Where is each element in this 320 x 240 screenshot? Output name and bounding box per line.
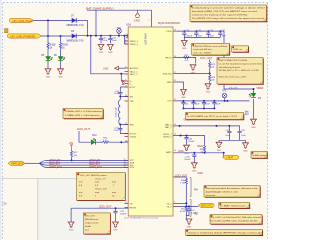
wire RA to RB [185, 190, 187, 206]
svg-text:D-: D- [130, 83, 133, 85]
note box: ILIM connected to high [217, 58, 263, 85]
net labels bus right set [89, 160, 102, 169]
svg-text:VBUS_2: VBUS_2 [130, 44, 139, 46]
capacitor C17 [99, 38, 103, 39]
wire ILIM divider vertical [209, 60, 211, 84]
svg-text:MBRD835L-T4G: MBRD835L-T4G [67, 25, 84, 27]
svg-text:Det: Det [245, 113, 249, 116]
svg-text:1.5k 4.7k: 1.5k 4.7k [229, 87, 239, 89]
svg-text:LDO_OUT: LDO_OUT [85, 215, 96, 217]
svg-text:14: 14 [174, 124, 176, 126]
wire to +7BAT capsule [223, 153, 224, 158]
wire VAC branch down to D+ pin [121, 74, 124, 81]
no-connect X on D- pin [122, 83, 124, 85]
svg-text:22: 22 [174, 99, 176, 101]
wire LED D6 to ground [60, 61, 62, 69]
svg-text:47uF: 47uF [114, 130, 119, 132]
junction dots PWD row [183, 30, 221, 32]
svg-text:LDO_OUT: LDO_OUT [77, 127, 91, 131]
capacitor C35 [182, 101, 184, 109]
port +5V_CAN_Power [9, 18, 33, 23]
inductor L34 [119, 97, 121, 125]
svg-text:U2 alt: PW PACKAGE / SOT, top: U2 alt: PW PACKAGE / SOT, top view only [124, 217, 159, 220]
capacitor C19 [228, 126, 230, 131]
svg-text:GND: GND [198, 172, 204, 175]
wire LDO_OUT to RA [177, 177, 186, 178]
svg-text:Bat: Bat [245, 110, 249, 113]
svg-text:LDO_OUT: LDO_OUT [99, 204, 112, 208]
capacitor C25 [195, 31, 197, 37]
svg-text:1: 1 [125, 39, 126, 41]
wire caps bottom rail [219, 140, 246, 142]
resistor RB R47 [185, 206, 187, 212]
capacitor C34 [119, 125, 121, 129]
resistor R27 PROG [184, 56, 190, 58]
svg-text:VDDA: VDDA [130, 135, 137, 138]
svg-text:be 5.24k and RB value should b: be 5.24k and RB value should be 30.31k [211, 220, 259, 222]
svg-text:100nF: 100nF [188, 141, 195, 143]
ground below RB [186, 219, 193, 229]
svg-text:SYN: SYN [130, 167, 135, 169]
wire PWR_SCL [46, 164, 128, 166]
svg-text:count and SW freq: count and SW freq [193, 48, 212, 51]
svg-text:BTST2: BTST2 [130, 133, 138, 135]
svg-text:C24: C24 [186, 30, 189, 32]
wire LED D9 stub [253, 89, 255, 95]
svg-text:10uF: 10uF [205, 103, 210, 105]
wire vertical link x48 [47, 20, 49, 43]
svg-text:30mA: 30mA [85, 225, 91, 228]
svg-text:Vmax = 12V: Vmax = 12V [95, 189, 108, 191]
svg-text:BAT_2: BAT_2 [165, 126, 172, 129]
ground below C13 [183, 145, 190, 155]
svg-text:ACDRV1: ACDRV1 [130, 67, 140, 70]
ground below D6 [57, 69, 64, 79]
wire C43 stub [115, 208, 117, 211]
wire SW pin to inductor top [120, 96, 128, 98]
svg-text:To BAT thermistor: To BAT thermistor [220, 205, 246, 208]
wire uPWR_INT [46, 159, 128, 161]
wire LED branch B top [60, 36, 62, 43]
bus fan-out [39, 160, 47, 167]
svg-text:C25: C25 [198, 30, 201, 32]
ground below C43 [112, 222, 119, 232]
svg-text:11: 11 [125, 202, 127, 204]
wire LDO_OUT down to LED row [79, 131, 91, 142]
power symbol GND up near IC top [134, 11, 140, 23]
IC right pin names [163, 31, 173, 208]
IC right pin stubs [173, 31, 177, 206]
svg-text:output current: output current [85, 221, 99, 224]
svg-text:+5V_CAN_POWER2: +5V_CAN_POWER2 [10, 34, 36, 38]
port PWR_BUS [8, 161, 25, 165]
svg-text:10uF: 10uF [112, 40, 118, 42]
svg-text:VREF: VREF [256, 86, 263, 90]
svg-text:1.5MHz SW = 1uH inductor: 1.5MHz SW = 1uH inductor [65, 114, 100, 117]
note box: inductor choice [63, 109, 103, 119]
ground below C18 [107, 44, 114, 54]
wire VBUS branch from supply bus to VAC pin [91, 36, 125, 74]
svg-text:connects the battery to the sy: connects the battery to the system (VSYS… [192, 13, 249, 16]
svg-text:PROG: PROG [165, 57, 172, 59]
wire main supply bus [77, 36, 125, 44]
svg-text:10uF: 10uF [241, 135, 246, 137]
capacitor C36 [193, 101, 195, 109]
wire PWD bottom rail [184, 37, 220, 39]
wire BATP pin [177, 152, 224, 154]
resistor R109 [59, 43, 61, 49]
page dashed border left [2, 3, 4, 240]
svg-text:(REG30) max: (REG30) max [85, 219, 99, 221]
ground below C17 [98, 44, 105, 54]
svg-text:U2A: U2A [126, 23, 131, 27]
svg-text:REGN: REGN [130, 207, 137, 209]
svg-text:4: 4 [125, 66, 126, 68]
note box: recommended thermistor [204, 186, 260, 198]
ground below caps rail left [216, 142, 223, 152]
capacitor C20 [238, 131, 242, 132]
resistor R26 [209, 75, 211, 81]
wire inductor bottom to SRC pin [120, 124, 128, 126]
wire PROG pin [177, 58, 196, 64]
svg-text:nom: nom [95, 182, 99, 184]
svg-text:23: 23 [174, 80, 176, 82]
ground below PROG [190, 65, 197, 75]
bracket RB [190, 200, 191, 217]
wire BAT pin long row [177, 126, 240, 131]
IC pin numbers [125, 29, 176, 203]
capacitor C43 [113, 212, 117, 213]
resistor R36 [203, 146, 205, 152]
svg-text:uPWR_SYN: uPWR_SYN [49, 167, 62, 169]
ground below D9 [250, 119, 257, 129]
ground below PWD cap bank [181, 41, 188, 51]
ground below D5 [45, 69, 52, 79]
svg-text:BATP: BATP [166, 151, 172, 154]
note box: To BAT power [251, 152, 267, 159]
svg-text:3: 3 [174, 202, 175, 204]
svg-text:18: 18 [124, 166, 126, 168]
ground flag left at ACDRV1 [103, 66, 125, 70]
wire PWR_SDA [46, 162, 128, 164]
svg-text:10uF: 10uF [216, 103, 221, 105]
svg-text:BAT_NTC: BAT_NTC [201, 205, 212, 208]
svg-text:ILIM_HI2: ILIM_HI2 [163, 73, 173, 75]
svg-text:GND: GND [167, 82, 172, 84]
capacitor C38 [213, 101, 215, 109]
junction dots CTS rails [182, 100, 228, 110]
note box: NTC RA RB [210, 215, 262, 225]
svg-text:ILIM CONNECTED TO HIGH: ILIM CONNECTED TO HIGH [219, 60, 248, 62]
wire GND pin [177, 82, 184, 89]
svg-text:MBRD835L-T4G: MBRD835L-T4G [67, 41, 84, 43]
svg-text:CAN4117V: CAN4117V [144, 33, 147, 45]
wire TP4 stub [118, 33, 120, 36]
svg-text:+5V_CAN_Power: +5V_CAN_Power [12, 19, 33, 23]
svg-text:CE: CE [130, 203, 134, 205]
svg-text:The REGN LDO stays off to mini: The REGN LDO stays off to minimize the q… [192, 17, 265, 20]
svg-text:TP1: TP1 [222, 91, 227, 93]
svg-text:BACP: BACP [197, 145, 204, 148]
svg-text:RA: RA [194, 188, 198, 192]
no-connect X on D+ pin [122, 80, 124, 82]
resistor R16 pull-up [71, 150, 73, 151]
svg-text:to set the maximum input curre: to set the maximum input current limit [219, 62, 262, 65]
svg-text:TS_2: TS_2 [166, 206, 172, 208]
wire D7 cathode to node x87 [77, 19, 88, 21]
svg-text:PWD: PWD [166, 31, 172, 33]
svg-text:with following formula:: with following formula: [219, 66, 241, 69]
svg-text:C26: C26 [210, 30, 213, 32]
wire LED D9 down [253, 99, 255, 119]
svg-text:RB: RB [194, 211, 198, 215]
svg-text:4.7k = 2s, 750kHz: 4.7k = 2s, 750kHz [193, 53, 211, 55]
port BAT_NTC [198, 203, 214, 207]
svg-text:BTM. res: BTM. res [233, 48, 243, 51]
svg-text:LDO_OUT: LDO_OUT [200, 56, 213, 60]
wire BAT CHAR SUPPLY vertical into IC top pin [151, 10, 153, 27]
wire bend down left [70, 208, 72, 222]
bus wire from port [25, 162, 39, 164]
svg-text:47uF: 47uF [114, 93, 119, 95]
wire R40 to IC pin 18 [109, 141, 128, 143]
capacitor C18 [108, 38, 112, 39]
svg-text:100nF: 100nF [184, 159, 191, 161]
svg-text:100nF: 100nF [120, 214, 127, 216]
capacitor C32 [118, 93, 122, 94]
svg-text:28: 28 [174, 29, 176, 31]
svg-text:(bq)27540(q)db: 10kOhm 2: clis: (bq)27540(q)db: 10kOhm 2: clish [206, 191, 239, 193]
wire TS_1 pin [177, 202, 186, 204]
svg-text:+7BAT: +7BAT [226, 156, 234, 159]
svg-text:10uF: 10uF [195, 103, 200, 105]
svg-text:TRC: TRC [130, 101, 135, 103]
svg-text:D12: D12 [92, 135, 97, 137]
wire port1 to diode D7 anode [34, 19, 72, 21]
svg-text:SDRV_1: SDRV_1 [163, 134, 172, 136]
ground left CE row [68, 222, 75, 232]
capacitor C38 [193, 153, 195, 155]
resistor R108 [47, 43, 49, 49]
svg-text:+5V: +5V [69, 142, 74, 145]
svg-text:BAT_1: BAT_1 [165, 123, 172, 126]
port +5V_CAN_POWER2 [7, 34, 41, 39]
op-amp U2 charger IC body [128, 27, 173, 216]
wire pin VBUS_2 [125, 43, 129, 45]
note box: LDO_OUT max output current [83, 213, 110, 234]
svg-text:GND: GND [103, 67, 109, 70]
svg-text:PROG PIN to set cell bat: PROG PIN to set cell bat [193, 45, 228, 48]
svg-text:uPWR_SYN: uPWR_SYN [89, 167, 102, 169]
bus pin numbers [124, 159, 126, 168]
svg-text:13: 13 [174, 134, 176, 136]
wire CTS bottom rail [183, 107, 214, 109]
note box: BTM res [232, 46, 249, 53]
svg-text:0.1uF: 0.1uF [102, 40, 108, 42]
svg-text:If only battery is present and: If only battery is present and the volta… [192, 7, 265, 10]
svg-text:Is VSYSMIN (an NTC so ur bat): Is VSYSMIN (an NTC so ur bat) = 3.7V [187, 115, 238, 118]
junction dots top-left [47, 19, 126, 37]
ground GND pin [180, 90, 187, 100]
capacitor C24 [183, 31, 185, 37]
wire BAT CHAR SUPPLY horizontal [87, 9, 152, 11]
IC left pin names [130, 41, 140, 210]
svg-text:VILIM_HI2 = 2V + 666 mV = ILIM: VILIM_HI2 = 2V + 666 mV = ILIM [219, 70, 259, 72]
page dashed border right [267, 3, 269, 240]
svg-text:threshold (VBAT_UVLOZ), the BA: threshold (VBAT_UVLOZ), the BATFET turns… [192, 10, 258, 13]
wire R108 to LED D5 [47, 49, 49, 57]
page dashed border top [3, 2, 268, 4]
ground below ILIM divider [205, 84, 212, 94]
capacitor C26 [207, 31, 209, 37]
svg-text:To BAT power: To BAT power [252, 154, 267, 157]
wire pin VBUS_1 [125, 40, 129, 42]
junction CE row [115, 207, 117, 209]
wire BTST to cap C32 [120, 87, 124, 92]
svg-text:VAC1_2: VAC1_2 [130, 73, 139, 76]
wire R109 to LED D6 [60, 49, 62, 57]
svg-text:PWR_BUS: PWR_BUS [11, 162, 24, 165]
capacitor C47 [188, 206, 190, 208]
svg-text:10uF: 10uF [225, 135, 230, 137]
note box: VSYSMIN [186, 113, 244, 120]
bracket RA [190, 178, 191, 197]
grey window rectangle bottom-left [38, 178, 108, 240]
svg-text:C27: C27 [222, 30, 225, 32]
svg-text:2: 2 [125, 42, 126, 44]
svg-text:LDO_OUT: LDO_OUT [175, 173, 188, 177]
svg-text:CTS: CTS [167, 101, 172, 103]
svg-text:7: 7 [125, 79, 126, 81]
wire stem to ground [183, 38, 185, 41]
wire SDRV pin row [177, 136, 205, 147]
note box: battery only behavior (top right) [190, 5, 267, 22]
wire PWD pin row [177, 30, 224, 32]
port +7BAT [223, 155, 239, 159]
svg-text:Charge is enabled by default (: Charge is enabled by default (EEPROM_Cha… [187, 232, 260, 235]
net labels bus left set [49, 160, 62, 169]
wire CTS top rail [177, 100, 250, 102]
svg-text:L34 2.2uH: L34 2.2uH [115, 106, 117, 117]
svg-text:CB: CB [2, 202, 6, 206]
note box: LDO_OUT values table [77, 173, 126, 201]
svg-text:750kHz SW = 2.2uH inductor: 750kHz SW = 2.2uH inductor [65, 110, 102, 113]
resistor RA R46 [185, 178, 187, 184]
svg-text:TS_1: TS_1 [166, 203, 172, 205]
wire LDO_OUT to CE pin [71, 207, 128, 209]
wire LED D5 to ground [47, 61, 49, 69]
svg-text:17: 17 [174, 72, 176, 74]
capacitor C27 [219, 31, 221, 37]
wire cap bank to VREF row [223, 31, 225, 89]
note box: To BAT thermistor [219, 203, 250, 209]
svg-text:For a NTC of 10kOhm/25C, RA va: For a NTC of 10kOhm/25C, RA value should [211, 216, 262, 219]
margin icon left [5, 29, 8, 33]
wire BAT CHAR vertical [95, 10, 97, 36]
wire vertical x87 supply [87, 20, 89, 35]
ground below C38 [191, 163, 198, 173]
note box: PROG pin [192, 43, 230, 55]
resistor R25 [209, 62, 211, 68]
LED D9 [249, 93, 256, 97]
net-tie X on bus [126, 34, 129, 39]
svg-text:nom: nom [95, 192, 99, 194]
wire cap C17 stub [100, 36, 102, 39]
svg-text:BTST: BTST [130, 87, 136, 89]
svg-text:10: 10 [174, 150, 176, 152]
wire uPWR_SYN [46, 166, 128, 168]
svg-text:BAT CHAR SUPPLY: BAT CHAR SUPPLY [86, 6, 114, 10]
svg-text:Vmax = 7V: Vmax = 7V [95, 178, 106, 180]
wire LED to resistor R40 [96, 141, 103, 143]
svg-text:SRC: SRC [130, 124, 135, 126]
svg-text:With LDO_OUT area = 4.8V: With LDO_OUT area = 4.8V [219, 75, 247, 78]
wire VREF row [224, 88, 253, 90]
svg-text:SDRV_2: SDRV_2 [163, 137, 172, 139]
svg-text:GND: GND [178, 150, 184, 153]
note box: charge enabled [186, 229, 263, 235]
svg-text:20: 20 [125, 85, 127, 87]
svg-text:LDO_OUT (REG30) values:: LDO_OUT (REG30) values: [80, 175, 107, 177]
svg-text:26: 26 [174, 56, 176, 58]
svg-text:GND: GND [134, 18, 140, 22]
wire C13 stub [186, 136, 188, 138]
svg-text:BQ24703PWRGDR: BQ24703PWRGDR [158, 22, 180, 25]
svg-text:VBUS_1: VBUS_1 [130, 41, 139, 43]
wire port2 to diode D8 anode [42, 35, 72, 37]
capacitor C13 [184, 138, 188, 139]
svg-text:thermistor: thermistor [206, 194, 216, 197]
wire cap C18 stub [109, 36, 111, 39]
IC left pin stubs [125, 41, 129, 208]
capacitor C37 [203, 101, 205, 109]
wire ILIM pin [177, 73, 210, 75]
ground below caps rail right [242, 143, 249, 153]
svg-text:Recommended thermistor referen: Recommended thermistor reference for [206, 187, 258, 190]
wire TS_2 to BAT_NTC [177, 205, 198, 207]
